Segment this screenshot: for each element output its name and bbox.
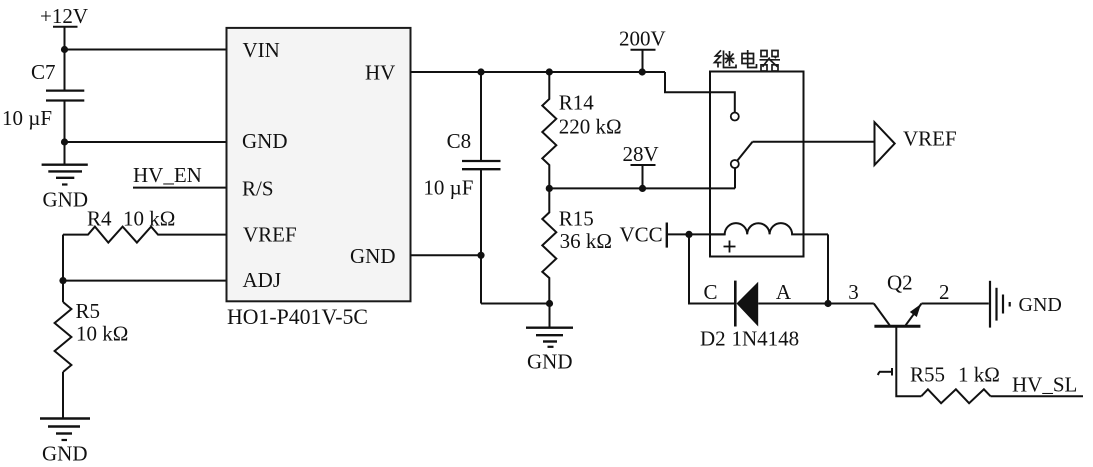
pin label 3 — [848, 280, 859, 304]
pin label GND (left) — [242, 129, 288, 153]
svg-text:10 kΩ: 10 kΩ — [76, 322, 128, 346]
svg-text:R5: R5 — [76, 299, 101, 323]
value label 10 uF (C7) — [2, 106, 52, 130]
ground symbol (C7) — [42, 165, 88, 185]
transistor Q2 emitter diagonal — [906, 304, 922, 326]
net label 200V — [619, 27, 666, 51]
wire bottom to R15 foot — [481, 303, 550, 305]
wire 28V stub — [642, 165, 644, 188]
wire HV jog into relay contact — [665, 72, 735, 113]
resistor R14 label — [559, 91, 595, 115]
resistor R4 — [63, 227, 227, 243]
net label VREF — [903, 127, 957, 151]
svg-text:HO1-P401V-5C: HO1-P401V-5C — [227, 305, 368, 329]
capacitor C8 — [462, 160, 501, 162]
svg-text:HV: HV — [365, 61, 395, 85]
pin label 1 (rotated) — [878, 368, 892, 376]
wire 28V row — [549, 187, 735, 189]
svg-text:R4: R4 — [87, 207, 112, 231]
ground label GND (R15) — [527, 350, 573, 374]
resistor R5 label — [76, 299, 101, 323]
net bar 200V — [631, 49, 656, 51]
ground symbol (R15) — [526, 304, 573, 347]
svg-text:R/S: R/S — [242, 177, 274, 201]
svg-text:VREF: VREF — [243, 223, 297, 247]
wire 28V riser to contact — [734, 168, 736, 188]
svg-text:VIN: VIN — [243, 38, 280, 62]
ground label GND (C7) — [43, 188, 89, 212]
wire left rail R4-R5 — [62, 235, 64, 302]
svg-text:10 kΩ: 10 kΩ — [123, 207, 175, 231]
junction VCC/diode branch — [685, 231, 692, 238]
junction at +12V/VIN — [61, 46, 68, 53]
svg-text:A: A — [776, 280, 792, 304]
relay K1 box — [710, 72, 804, 257]
svg-text:10 µF: 10 µF — [2, 106, 52, 130]
wire HV net — [411, 71, 666, 73]
capacitor C8 label — [447, 129, 472, 153]
pin label VREF — [243, 223, 297, 247]
capacitor C7 label — [31, 60, 56, 84]
capacitor C7 — [46, 89, 84, 91]
wire VCC drop to diode — [689, 234, 734, 303]
value label 10 kOhm (R5) — [76, 322, 128, 346]
pin label HV — [365, 61, 395, 85]
pin label R/S — [242, 177, 274, 201]
svg-text:R55: R55 — [910, 363, 945, 387]
svg-text:C: C — [704, 280, 718, 304]
svg-text:GND: GND — [1019, 294, 1062, 316]
transistor Q2 collector diagonal — [874, 304, 890, 326]
wire emitter to GND — [922, 303, 989, 305]
net label 28V — [623, 142, 659, 166]
diode D2 cathode bar — [734, 281, 737, 327]
VREF output triangle — [875, 122, 895, 165]
svg-text:VCC: VCC — [620, 223, 663, 247]
pin label A — [776, 280, 792, 304]
resistor R55 — [921, 389, 990, 403]
wire GND pin — [65, 141, 227, 143]
junction HV/200V — [639, 68, 646, 75]
svg-text:ADJ: ADJ — [243, 268, 282, 292]
node +12V label — [40, 4, 88, 28]
wire arm to VREF triangle — [753, 141, 875, 143]
wire coil return drop — [827, 234, 829, 303]
svg-text:3: 3 — [848, 280, 859, 304]
power bar +12V — [53, 26, 78, 28]
resistor R14 — [542, 72, 556, 188]
wire base drop — [896, 326, 921, 396]
svg-text:1N4148: 1N4148 — [732, 327, 800, 351]
relay coil — [710, 223, 828, 234]
resistor R5 — [55, 302, 72, 372]
svg-text:1 kΩ: 1 kΩ — [958, 363, 1000, 387]
svg-text:200V: 200V — [619, 27, 666, 51]
svg-text:GND: GND — [43, 188, 89, 212]
junction coil/diode/base row — [824, 300, 831, 307]
resistor R15 label — [559, 207, 594, 231]
wire R55 to HV_SL — [991, 395, 1084, 397]
op-amp U1 regulator box HO1-P401V-5C — [227, 28, 411, 301]
pin label GND (right) — [350, 244, 396, 268]
wire C8 top — [480, 72, 482, 161]
transistor Q2 base bar — [874, 325, 920, 328]
net label HV_EN — [133, 163, 202, 187]
svg-text:HV_EN: HV_EN — [133, 163, 202, 187]
pin label 2 — [939, 280, 950, 304]
relay label (Chinese: relay) — [715, 50, 781, 71]
net bar 28V — [631, 164, 656, 166]
ground symbol (R5) — [40, 419, 90, 441]
svg-text:D2: D2 — [700, 327, 726, 351]
resistor R15 — [542, 188, 556, 303]
svg-text:GND: GND — [527, 350, 573, 374]
svg-text:220 kΩ: 220 kΩ — [559, 115, 622, 139]
junction at C7/GND — [61, 138, 68, 145]
relay contact circle (200V side) — [731, 113, 739, 121]
svg-text:GND: GND — [350, 244, 396, 268]
wire VIN — [65, 49, 227, 51]
pin label VIN — [243, 38, 280, 62]
relay switch arm — [737, 142, 753, 161]
svg-text:GND: GND — [242, 129, 288, 153]
net label VCC — [620, 223, 663, 247]
ground label GND (Q2) — [1019, 294, 1062, 316]
wire C7 bottom rail — [64, 101, 66, 165]
wire GND pin (right) — [411, 254, 482, 256]
wire +12V rail top — [64, 27, 66, 91]
resistor R4 label — [87, 207, 175, 231]
value label 36 kOhm (R15) — [560, 229, 612, 253]
net label HV_SL — [1012, 373, 1077, 397]
coil polarity plus sign — [724, 241, 736, 253]
wire R5 to ground — [62, 372, 64, 419]
junction R14/R15/28V row — [546, 185, 553, 192]
svg-text:2: 2 — [939, 280, 950, 304]
wire ADJ pin — [63, 280, 227, 282]
wire diode anode to node 3 — [758, 303, 874, 305]
svg-text:10 µF: 10 µF — [423, 176, 473, 200]
svg-text:+12V: +12V — [40, 4, 88, 28]
VCC port tick — [666, 223, 668, 248]
svg-text:GND: GND — [42, 442, 88, 466]
diode D2 triangle — [737, 282, 759, 327]
svg-text:C7: C7 — [31, 60, 56, 84]
svg-text:R15: R15 — [559, 207, 594, 231]
svg-text:R14: R14 — [559, 91, 595, 115]
resistor R55 label — [910, 363, 1000, 387]
svg-text:28V: 28V — [623, 142, 659, 166]
svg-text:36 kΩ: 36 kΩ — [560, 229, 612, 253]
svg-text:Q2: Q2 — [887, 271, 913, 295]
part label HO1-P401V-5C — [227, 305, 368, 329]
value label 220 kOhm (R14) — [559, 115, 622, 139]
diode label D2 1N4148 — [700, 327, 799, 351]
junction R15 foot — [546, 300, 553, 307]
value label 10 uF (C8) — [423, 176, 473, 200]
svg-text:C8: C8 — [447, 129, 472, 153]
transistor Q2 emitter arrow — [910, 304, 921, 317]
junction GND pin/C8 — [477, 252, 484, 259]
junction HV/C8 — [477, 68, 484, 75]
transistor Q2 label — [887, 271, 913, 295]
wire C8 bottom rail — [480, 169, 482, 303]
wire VCC to coil — [667, 233, 725, 235]
junction 28V stub — [639, 185, 646, 192]
ground symbol (rotated, Q2 emitter) — [990, 281, 1010, 328]
pin label C — [704, 280, 718, 304]
svg-text:VREF: VREF — [903, 127, 957, 151]
ground label GND (R5) — [42, 442, 88, 466]
svg-text:HV_SL: HV_SL — [1012, 373, 1077, 397]
wire 200V stub — [642, 50, 644, 72]
wire R/S pin — [133, 187, 227, 189]
relay contact circle (28V side) — [731, 160, 739, 168]
junction at ADJ — [59, 277, 66, 284]
pin label ADJ — [243, 268, 282, 292]
junction HV/R14 — [546, 68, 553, 75]
